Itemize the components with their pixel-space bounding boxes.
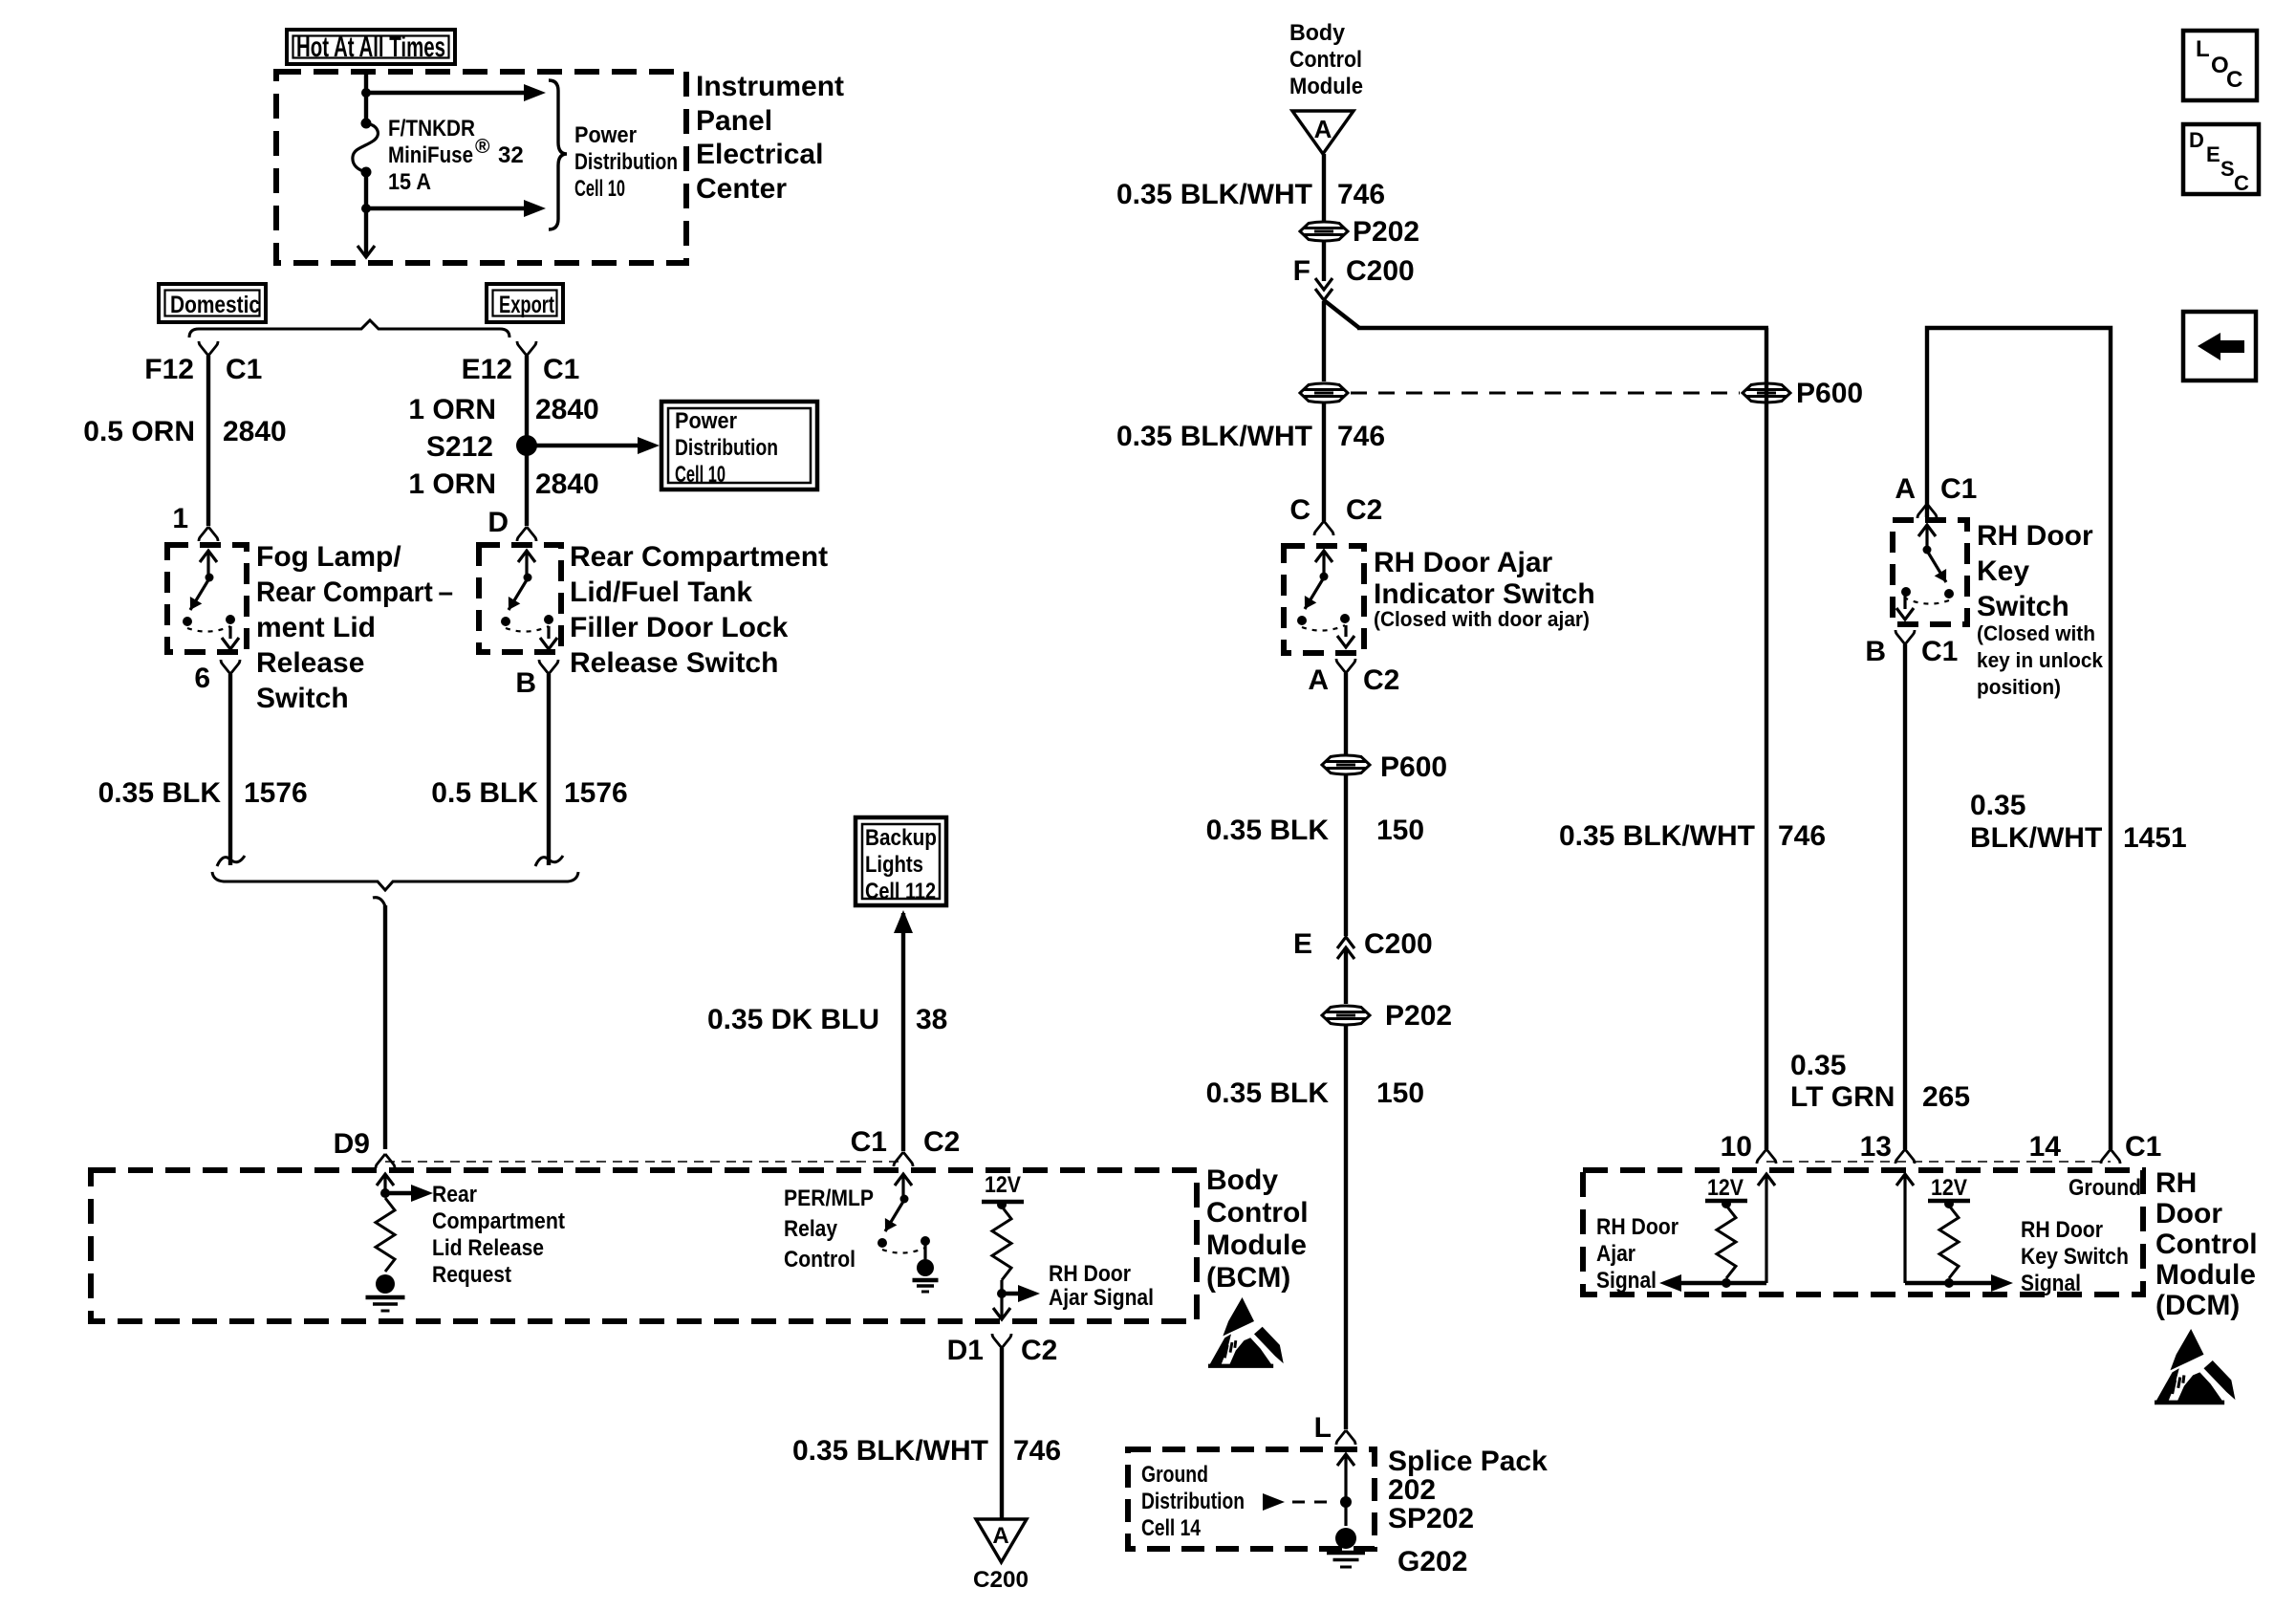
- svg-text:Distribution: Distribution: [1141, 1489, 1245, 1514]
- svg-text:Request: Request: [432, 1262, 511, 1288]
- svg-text:LT GRN: LT GRN: [1790, 1081, 1895, 1113]
- svg-text:RH Door: RH Door: [1977, 520, 2093, 552]
- svg-text:Electrical: Electrical: [696, 139, 823, 170]
- svg-text:C2: C2: [1346, 494, 1382, 526]
- svg-text:Instrument: Instrument: [696, 71, 844, 102]
- svg-text:S: S: [2220, 157, 2235, 181]
- svg-text:15 A: 15 A: [388, 169, 431, 195]
- svg-text:C1: C1: [2125, 1131, 2161, 1163]
- svg-text:D9: D9: [334, 1128, 370, 1160]
- svg-text:0.35 BLK/WHT: 0.35 BLK/WHT: [792, 1435, 988, 1467]
- svg-text:MiniFuse: MiniFuse: [388, 142, 473, 168]
- svg-text:Rear: Rear: [432, 1182, 477, 1207]
- svg-text:0.5 BLK: 0.5 BLK: [431, 777, 538, 809]
- svg-text:265: 265: [1922, 1081, 1970, 1113]
- svg-text:D1: D1: [947, 1335, 984, 1366]
- svg-text:Control: Control: [2155, 1229, 2258, 1260]
- svg-text:®: ®: [475, 136, 490, 158]
- svg-text:32: 32: [498, 142, 524, 168]
- svg-text:Backup: Backup: [865, 825, 937, 851]
- svg-text:E: E: [2206, 142, 2220, 166]
- svg-text:Power: Power: [574, 122, 637, 148]
- svg-text:P600: P600: [1380, 751, 1447, 783]
- svg-text:Key Switch: Key Switch: [2021, 1244, 2129, 1270]
- svg-text:Lights: Lights: [865, 852, 923, 878]
- svg-text:1451: 1451: [2123, 822, 2187, 854]
- svg-text:P600: P600: [1796, 378, 1863, 409]
- svg-text:D: D: [487, 507, 509, 538]
- svg-text:Compartment: Compartment: [432, 1208, 565, 1234]
- svg-text:0.5 ORN: 0.5 ORN: [83, 416, 195, 447]
- svg-text:0.35 BLK: 0.35 BLK: [1206, 815, 1330, 846]
- svg-text:Control: Control: [784, 1247, 856, 1273]
- svg-text:1576: 1576: [244, 777, 308, 809]
- svg-text:L: L: [1314, 1412, 1332, 1444]
- svg-text:2840: 2840: [535, 394, 599, 425]
- svg-text:Export: Export: [499, 292, 554, 318]
- svg-text:C: C: [1289, 494, 1310, 526]
- svg-text:F12: F12: [144, 354, 194, 385]
- svg-text:C200: C200: [1346, 255, 1415, 287]
- svg-text:A: A: [1314, 115, 1332, 143]
- svg-text:0.35 DK BLU: 0.35 DK BLU: [707, 1004, 879, 1035]
- svg-text:Rear Compartment: Rear Compartment: [570, 541, 828, 573]
- svg-text:A: A: [1308, 664, 1329, 696]
- svg-text:0.35 BLK/WHT: 0.35 BLK/WHT: [1559, 820, 1755, 852]
- svg-text:SP202: SP202: [1388, 1503, 1474, 1534]
- svg-text:0.35 BLK: 0.35 BLK: [1206, 1077, 1330, 1109]
- svg-text:C2: C2: [923, 1126, 960, 1158]
- svg-text:F: F: [1293, 255, 1310, 287]
- svg-text:1 ORN: 1 ORN: [408, 394, 496, 425]
- svg-text:RH Door: RH Door: [1049, 1261, 1131, 1287]
- svg-text:2840: 2840: [535, 468, 599, 500]
- svg-text:Lid Release: Lid Release: [432, 1235, 544, 1261]
- svg-text:0.35 BLK/WHT: 0.35 BLK/WHT: [1116, 179, 1312, 210]
- svg-text:(Closed with door ajar): (Closed with door ajar): [1374, 607, 1590, 631]
- svg-text:G202: G202: [1397, 1546, 1467, 1577]
- svg-text:L: L: [2196, 36, 2210, 62]
- svg-text:E12: E12: [462, 354, 512, 385]
- svg-text:PER/MLP: PER/MLP: [784, 1186, 874, 1211]
- svg-text:D: D: [2189, 128, 2204, 152]
- svg-text:Signal: Signal: [2021, 1271, 2081, 1296]
- svg-text:Ground: Ground: [2069, 1175, 2141, 1201]
- svg-text:Ajar: Ajar: [1596, 1241, 1635, 1267]
- svg-text:(DCM): (DCM): [2155, 1290, 2240, 1321]
- svg-text:Module: Module: [2155, 1259, 2256, 1291]
- svg-text:Panel: Panel: [696, 105, 772, 137]
- svg-text:12V: 12V: [985, 1172, 1021, 1198]
- svg-text:E: E: [1293, 928, 1312, 960]
- svg-text:Ajar Signal: Ajar Signal: [1049, 1285, 1154, 1311]
- svg-text:Switch: Switch: [256, 683, 349, 714]
- svg-text:0.35: 0.35: [1970, 790, 2025, 821]
- svg-text:10: 10: [1721, 1131, 1752, 1163]
- svg-text:RH Door Ajar: RH Door Ajar: [1374, 547, 1553, 578]
- svg-text:S212: S212: [426, 431, 493, 463]
- svg-text:C: C: [2234, 171, 2249, 195]
- svg-text:position): position): [1977, 675, 2061, 699]
- svg-text:Body: Body: [1289, 20, 1346, 46]
- svg-text:Distribution: Distribution: [574, 149, 678, 175]
- svg-text:746: 746: [1013, 1435, 1061, 1467]
- svg-text:14: 14: [2029, 1131, 2062, 1163]
- svg-text:Center: Center: [696, 173, 787, 205]
- svg-text:12V: 12V: [1707, 1175, 1744, 1201]
- svg-text:Cell 14: Cell 14: [1141, 1515, 1202, 1541]
- svg-text:RH: RH: [2155, 1167, 2197, 1199]
- svg-text:Signal: Signal: [1596, 1268, 1657, 1294]
- svg-text:C1: C1: [543, 354, 579, 385]
- svg-text:Door: Door: [2155, 1198, 2222, 1229]
- svg-text:Hot At All Times: Hot At All Times: [296, 32, 445, 63]
- svg-text:Rear Compart –: Rear Compart –: [256, 577, 453, 608]
- svg-text:Module: Module: [1206, 1229, 1307, 1261]
- svg-text:150: 150: [1376, 1077, 1424, 1109]
- svg-text:C2: C2: [1363, 664, 1399, 696]
- svg-text:746: 746: [1337, 421, 1385, 452]
- svg-text:Release Switch: Release Switch: [570, 647, 778, 679]
- svg-text:38: 38: [916, 1004, 947, 1035]
- svg-text:A: A: [992, 1523, 1008, 1549]
- svg-text:Switch: Switch: [1977, 591, 2069, 622]
- svg-text:Release: Release: [256, 647, 364, 679]
- svg-text:B: B: [515, 667, 536, 699]
- svg-text:C200: C200: [973, 1567, 1029, 1593]
- svg-text:0.35 BLK: 0.35 BLK: [98, 777, 222, 809]
- svg-text:C1: C1: [1940, 473, 1977, 505]
- svg-text:Fog Lamp/: Fog Lamp/: [256, 541, 401, 573]
- svg-text:RH Door: RH Door: [2021, 1217, 2103, 1243]
- svg-text:Cell 10: Cell 10: [574, 176, 625, 202]
- svg-text:C1: C1: [1921, 636, 1958, 667]
- svg-text:0.35: 0.35: [1790, 1050, 1846, 1081]
- svg-text:13: 13: [1860, 1131, 1892, 1163]
- svg-text:Cell 112: Cell 112: [865, 879, 936, 904]
- svg-text:C2: C2: [1021, 1335, 1057, 1366]
- svg-text:C200: C200: [1364, 928, 1433, 960]
- svg-text:B: B: [1865, 636, 1886, 667]
- svg-text:(Closed with: (Closed with: [1977, 621, 2095, 645]
- svg-text:Cell 10: Cell 10: [675, 462, 726, 488]
- svg-text:746: 746: [1337, 179, 1385, 210]
- svg-text:2840: 2840: [223, 416, 287, 447]
- svg-text:Key: Key: [1977, 555, 2029, 587]
- svg-text:Control: Control: [1289, 47, 1362, 73]
- svg-text:A: A: [1895, 473, 1916, 505]
- svg-text:RH Door: RH Door: [1596, 1214, 1679, 1240]
- svg-text:Distribution: Distribution: [675, 435, 778, 461]
- svg-text:Filler Door Lock: Filler Door Lock: [570, 612, 789, 643]
- svg-text:746: 746: [1778, 820, 1826, 852]
- svg-text:6: 6: [194, 663, 210, 694]
- svg-text:Ground: Ground: [1141, 1462, 1208, 1488]
- svg-text:Domestic: Domestic: [170, 292, 260, 318]
- svg-text:F/TNKDR: F/TNKDR: [388, 116, 475, 141]
- svg-text:Control: Control: [1206, 1197, 1309, 1229]
- svg-text:150: 150: [1376, 815, 1424, 846]
- svg-text:Power: Power: [675, 408, 737, 434]
- svg-text:12V: 12V: [1931, 1175, 1967, 1201]
- svg-text:P202: P202: [1353, 216, 1419, 248]
- svg-text:0.35 BLK/WHT: 0.35 BLK/WHT: [1116, 421, 1312, 452]
- svg-text:ment Lid: ment Lid: [256, 612, 376, 643]
- svg-text:202: 202: [1388, 1474, 1436, 1506]
- svg-text:C1: C1: [226, 354, 262, 385]
- svg-text:1: 1: [172, 503, 188, 534]
- svg-text:Relay: Relay: [784, 1216, 838, 1242]
- svg-text:1 ORN: 1 ORN: [408, 468, 496, 500]
- svg-text:Module: Module: [1289, 74, 1363, 99]
- svg-text:1576: 1576: [564, 777, 628, 809]
- svg-text:Body: Body: [1206, 1164, 1278, 1196]
- svg-text:Lid/Fuel Tank: Lid/Fuel Tank: [570, 577, 752, 608]
- svg-text:(BCM): (BCM): [1206, 1262, 1290, 1294]
- svg-text:Indicator Switch: Indicator Switch: [1374, 578, 1595, 610]
- svg-text:key in unlock: key in unlock: [1977, 648, 2104, 672]
- svg-text:P202: P202: [1385, 1000, 1452, 1032]
- svg-text:Splice Pack: Splice Pack: [1388, 1446, 1548, 1477]
- svg-text:C: C: [2226, 67, 2242, 93]
- svg-text:C1: C1: [851, 1126, 887, 1158]
- svg-text:BLK/WHT: BLK/WHT: [1970, 822, 2102, 854]
